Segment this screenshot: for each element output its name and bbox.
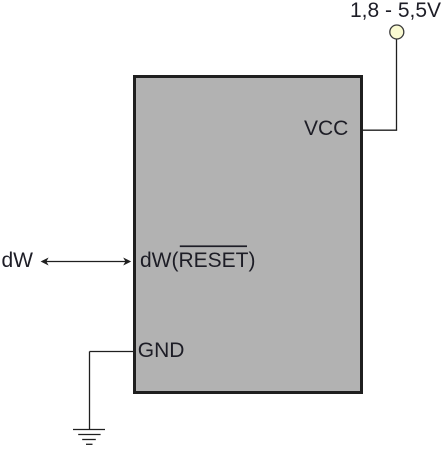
ground symbol xyxy=(73,430,105,445)
pin label dW(RESET) xyxy=(140,250,256,271)
IC block U1 (MCU body) xyxy=(133,75,363,394)
node dW (external debugWIRE) xyxy=(2,250,34,271)
wire: GND pin (horizontal segment) xyxy=(90,351,135,353)
label 1,8 - 5,5V (supply voltage) xyxy=(350,0,441,21)
pin label GND xyxy=(138,340,185,361)
wire: terminal to VCC (vertical segment) xyxy=(396,40,398,131)
wire: GND drop (vertical segment) xyxy=(89,352,91,430)
bidirectional arrow (dW signal) xyxy=(41,258,132,266)
wire: VCC pin (horizontal segment) xyxy=(362,129,397,131)
overline over RESET xyxy=(180,245,247,247)
supply terminal (1.8-5.5V pin circle) xyxy=(390,25,404,39)
pin label VCC xyxy=(304,118,348,139)
